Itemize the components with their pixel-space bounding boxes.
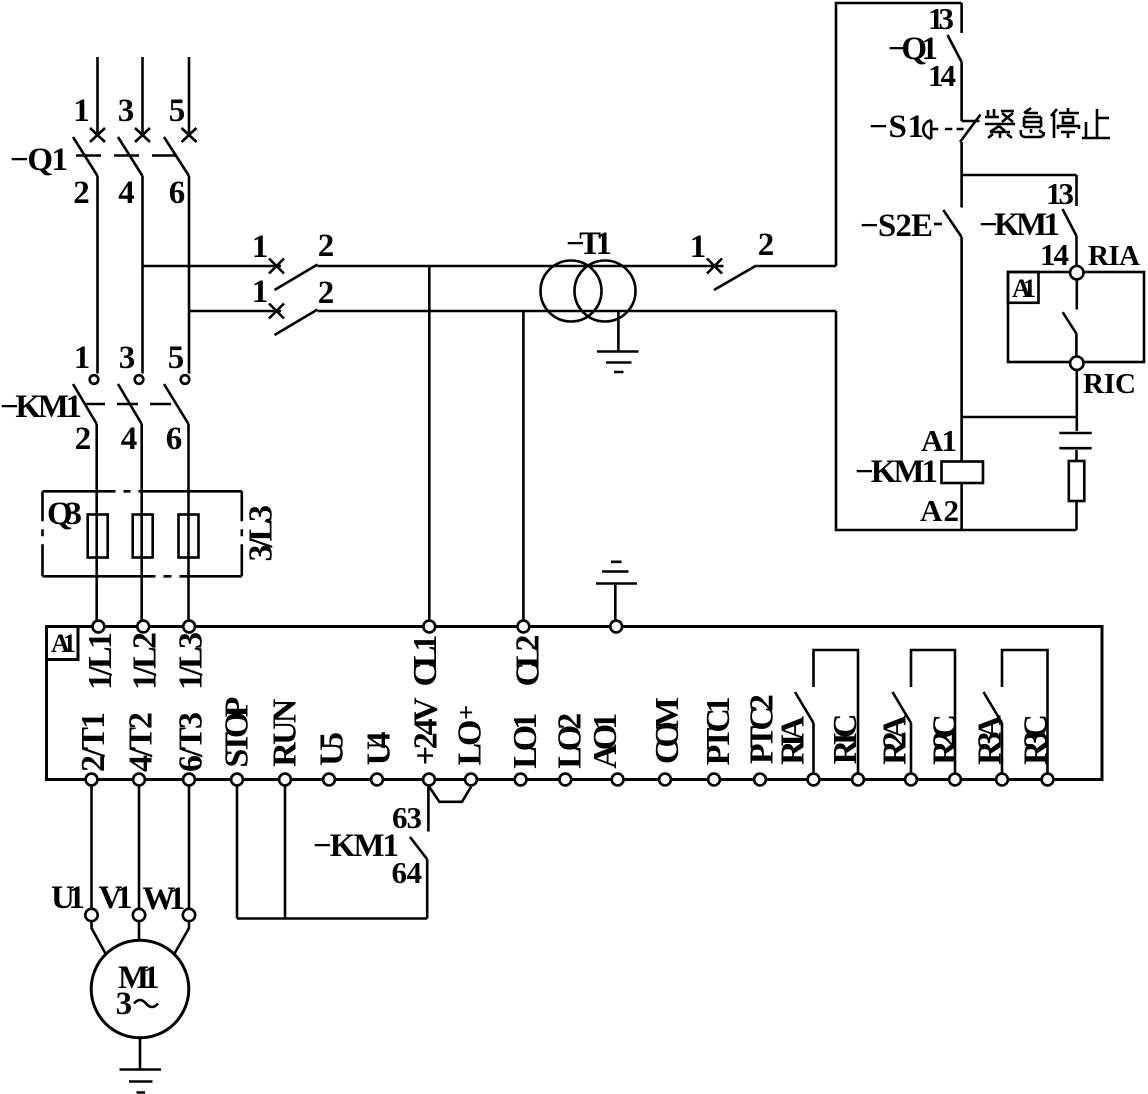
terminal PTC1 — [708, 774, 720, 786]
svg-text:W1: W1 — [142, 881, 185, 917]
motor M1 — [91, 940, 189, 1038]
wire W1 to motor — [174, 921, 189, 954]
switch X contact near T1 — [707, 259, 722, 274]
motor ground wire — [139, 1038, 142, 1069]
terminal 4/T2 — [133, 774, 145, 786]
terminal R2C — [949, 774, 961, 786]
svg-text:1: 1 — [252, 274, 269, 310]
fuse block Q3 box (dash-dot border) — [43, 490, 242, 493]
terminal RUN — [279, 774, 291, 786]
svg-text:−T1: −T1 — [566, 226, 612, 262]
wire 2/T1 to U1 — [90, 786, 93, 909]
svg-text:U4: U4 — [360, 732, 397, 766]
terminal 1/L1 — [93, 621, 105, 633]
breaker Q1 pole 1 X contact — [90, 128, 105, 142]
wire STOP drop — [236, 786, 239, 919]
wire CL1 drop — [428, 266, 431, 621]
wire capacitor to resistor — [1075, 450, 1078, 461]
svg-text:1: 1 — [252, 229, 269, 265]
svg-text:4/T2: 4/T2 — [123, 712, 160, 772]
svg-text:1/L2: 1/L2 — [127, 632, 164, 690]
contactor KM1 pole 3 blade — [164, 384, 189, 424]
disconnect switch X contact on wire A — [269, 259, 284, 274]
svg-text:6: 6 — [169, 175, 186, 211]
breaker Q1 pole 2 incoming wire — [141, 57, 144, 137]
breaker Q1 pole 3 incoming wire — [188, 57, 191, 137]
control circuit left lower wire — [836, 311, 1077, 530]
svg-text:A2: A2 — [920, 493, 959, 528]
terminal V1 — [133, 909, 145, 921]
svg-text:4: 4 — [121, 421, 138, 457]
svg-text:−KM1: −KM1 — [313, 828, 399, 864]
terminal R3C — [1042, 774, 1054, 786]
disconnect switch blade wire B — [275, 310, 318, 336]
terminal CL2 — [518, 621, 530, 633]
svg-text:−KM1: −KM1 — [855, 454, 938, 490]
terminal RIA — [808, 774, 820, 786]
relay contact R3 inside device — [1002, 650, 1048, 773]
wire S1 to S2 — [960, 142, 963, 208]
svg-text:CL1: CL1 — [407, 635, 444, 687]
terminal R2A — [905, 774, 917, 786]
terminal COM — [659, 774, 671, 786]
wire CL2 drop — [522, 311, 525, 621]
transformer T1 secondary circle — [575, 261, 636, 322]
wire coil to bottom — [960, 483, 963, 530]
svg-text:5: 5 — [169, 93, 186, 129]
svg-text:1/L1: 1/L1 — [82, 632, 119, 690]
svg-text:R2C: R2C — [926, 714, 963, 765]
circuit breaker Q1 pole 1 incoming wire — [96, 57, 99, 137]
svg-text:3: 3 — [118, 93, 135, 129]
svg-text:R2A: R2A — [876, 714, 913, 764]
breaker Q1 pole 3 blade — [164, 137, 189, 176]
svg-text:−KM1: −KM1 — [0, 389, 82, 425]
svg-text:+: + — [459, 698, 474, 727]
svg-text:LO1: LO1 — [507, 713, 544, 769]
ground symbol above device (inverted) — [614, 584, 617, 620]
svg-text:3/L3: 3/L3 — [242, 505, 279, 562]
wire phase L1 from Q1 to KM1 — [96, 176, 99, 374]
relay contact inside A1 — [1076, 279, 1079, 309]
svg-text:1: 1 — [74, 340, 91, 376]
breaker Q1 pole 1 blade — [73, 137, 98, 176]
transformer T1 primary circle — [541, 261, 602, 322]
svg-text:A1: A1 — [51, 629, 76, 658]
terminal U5 — [323, 774, 335, 786]
control circuit top wire — [836, 3, 962, 266]
label emergency stop (Chinese: jin ji ting zhi) drawn strokes — [985, 108, 1110, 138]
terminal +24V — [423, 774, 435, 786]
svg-text:−S2E: −S2E — [860, 208, 933, 244]
resistor R — [1069, 461, 1085, 501]
svg-text:2: 2 — [318, 228, 335, 264]
wire 6/T3 to W1 — [188, 786, 191, 909]
wire RIC down to junction — [1076, 370, 1079, 431]
aux contact Q1 13/14 — [960, 3, 963, 33]
svg-text:2: 2 — [75, 421, 92, 457]
wire phase 2 KM1 to fuse — [140, 424, 143, 621]
svg-text:COM: COM — [649, 697, 686, 764]
terminal LO+ — [465, 774, 477, 786]
terminal U1 — [85, 909, 97, 921]
aux contact KM1 63/64 — [427, 786, 430, 832]
svg-text:1: 1 — [73, 93, 90, 129]
svg-text:RIA: RIA — [1088, 240, 1140, 272]
svg-text:CL2: CL2 — [510, 635, 547, 687]
device A1 relay box (top right) — [1008, 272, 1144, 362]
contactor KM1 pole 1 blade — [73, 384, 97, 424]
terminal U4 — [371, 774, 383, 786]
wire resistor to bottom — [1075, 501, 1078, 530]
wire bottom link — [237, 917, 427, 920]
svg-text:Q3: Q3 — [47, 496, 82, 532]
emergency stop button S1 (NC contact) — [962, 120, 980, 123]
wire U1 to motor — [92, 921, 107, 954]
node branch to KM1 aux — [962, 174, 1077, 177]
svg-text:RUN: RUN — [267, 698, 304, 766]
svg-text:3: 3 — [119, 340, 136, 376]
svg-text:RIC: RIC — [1083, 368, 1136, 400]
svg-text:64: 64 — [392, 855, 423, 890]
terminal RIA — [1070, 266, 1083, 279]
S1 mushroom head — [923, 120, 931, 138]
terminal PTC2 — [754, 774, 766, 786]
svg-text:A1: A1 — [921, 423, 957, 458]
wire phase L2 from Q1 to KM1 — [141, 176, 144, 374]
switch blade near T1 — [714, 266, 756, 291]
breaker Q1 mechanical link (dashed) — [76, 154, 176, 157]
terminal LO1 — [515, 774, 527, 786]
svg-text:3: 3 — [116, 986, 133, 1022]
svg-text:LO2: LO2 — [552, 713, 589, 769]
contactor KM1 pole 2 fixed contact — [135, 375, 144, 384]
relay contact R2 inside device — [911, 650, 955, 773]
wire phase L3 from Q1 to KM1 — [188, 176, 191, 374]
svg-text:2: 2 — [758, 227, 775, 263]
disconnect switch X contact on wire B — [269, 304, 284, 319]
relay contact R1 inside device — [814, 650, 859, 773]
svg-text:5: 5 — [168, 340, 185, 376]
terminal 6/T3 — [183, 774, 195, 786]
svg-text:14: 14 — [928, 58, 956, 93]
fuse 1 — [88, 515, 108, 558]
wire V1 to motor — [138, 921, 141, 940]
wire A to transformer — [318, 265, 724, 268]
disconnect switch blade wire A — [275, 265, 318, 291]
wire phase 3 KM1 to fuse — [187, 424, 190, 621]
wire B from phase 3 (y=311) — [189, 310, 281, 313]
terminal ground — [610, 621, 622, 633]
contactor KM1 link (dashed) — [84, 403, 172, 406]
svg-text:RIA: RIA — [775, 715, 812, 764]
breaker Q1 pole 3 X contact — [182, 128, 197, 142]
terminal CL1 — [423, 621, 435, 633]
breaker Q1 pole 2 X contact — [135, 128, 150, 142]
svg-text:1: 1 — [690, 229, 707, 265]
svg-text:14: 14 — [1040, 237, 1069, 272]
svg-text:6: 6 — [166, 421, 183, 457]
fuse 2 — [133, 515, 153, 558]
svg-text:13: 13 — [1046, 176, 1074, 211]
breaker Q1 pole 2 blade — [118, 137, 143, 176]
soft starter device box A1 — [47, 627, 1103, 780]
svg-text:PTC1: PTC1 — [700, 696, 737, 765]
wire A to control circuit — [757, 265, 837, 268]
svg-text:2: 2 — [318, 275, 335, 311]
capacitor C1 plates — [1059, 432, 1091, 435]
svg-text:4: 4 — [118, 175, 135, 211]
terminal RIC — [852, 774, 864, 786]
svg-text:A1: A1 — [1012, 274, 1036, 303]
wire B to control circuit — [318, 310, 837, 313]
contactor KM1 pole 3 fixed contact — [181, 375, 190, 384]
contactor coil KM1 — [942, 462, 984, 484]
terminal AO1 — [612, 774, 624, 786]
terminal RIC — [1070, 357, 1083, 370]
wire phase 1 KM1 to fuse — [95, 424, 98, 621]
contactor KM1 pole 1 fixed contact — [90, 375, 99, 384]
svg-text:−Q1: −Q1 — [10, 142, 68, 178]
svg-text:2: 2 — [73, 175, 90, 211]
terminal STOP — [231, 774, 243, 786]
svg-text:6/T3: 6/T3 — [173, 712, 210, 772]
terminal 1/L3 — [183, 621, 195, 633]
aux contact KM1 13/14 — [1075, 175, 1078, 206]
contactor KM1 pole 2 blade — [118, 384, 142, 424]
T1 ground wire — [617, 311, 620, 352]
terminal W1 — [183, 909, 195, 921]
fuse 3 — [179, 515, 199, 558]
svg-text:V1: V1 — [99, 880, 133, 916]
T1 ground symbol — [597, 352, 639, 373]
terminal LO2 — [559, 774, 571, 786]
svg-text:U1: U1 — [51, 880, 85, 916]
terminal 1/L2 — [137, 621, 149, 633]
wire A from phase 2 (y=266) — [143, 265, 282, 268]
terminal R3A — [996, 774, 1008, 786]
terminal 2/T1 — [86, 774, 98, 786]
svg-text:U5: U5 — [314, 732, 351, 766]
motor ground symbol — [120, 1070, 162, 1093]
junction wire to coil branch — [962, 416, 1077, 419]
svg-text:2/T1: 2/T1 — [75, 712, 112, 772]
wire 4/T2 to V1 — [138, 786, 141, 909]
svg-text:STOP: STOP — [219, 697, 256, 768]
svg-text:AO1: AO1 — [587, 713, 624, 769]
jumper +24V to LO+ — [429, 787, 471, 802]
svg-text:+24V: +24V — [408, 697, 445, 765]
svg-text:−S1: −S1 — [869, 109, 924, 145]
wire RUN drop — [284, 786, 287, 919]
svg-text:1/L3: 1/L3 — [173, 632, 210, 690]
